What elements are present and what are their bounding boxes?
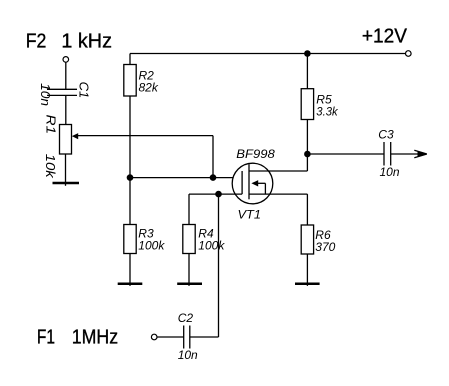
svg-text:10n: 10n <box>38 83 52 106</box>
svg-text:100k: 100k <box>198 239 225 253</box>
svg-text:3.3k: 3.3k <box>316 105 338 119</box>
svg-text:1 kHz: 1 kHz <box>61 30 112 53</box>
svg-text:10n: 10n <box>178 348 198 362</box>
svg-text:82k: 82k <box>139 80 159 94</box>
svg-text:C2: C2 <box>178 311 194 325</box>
svg-text:C1: C1 <box>77 82 91 99</box>
svg-text:10n: 10n <box>380 165 400 179</box>
svg-text:C3: C3 <box>378 128 394 142</box>
svg-text:370: 370 <box>315 240 335 254</box>
svg-text:10k: 10k <box>43 154 57 179</box>
svg-text:R1: R1 <box>44 115 58 135</box>
svg-text:+12V: +12V <box>362 25 407 48</box>
svg-text:VT1: VT1 <box>238 208 262 222</box>
svg-text:1MHz: 1MHz <box>72 325 118 348</box>
svg-text:F1: F1 <box>37 325 55 348</box>
svg-text:BF998: BF998 <box>236 147 275 161</box>
svg-text:100k: 100k <box>138 239 165 253</box>
svg-text:F2: F2 <box>26 30 47 53</box>
